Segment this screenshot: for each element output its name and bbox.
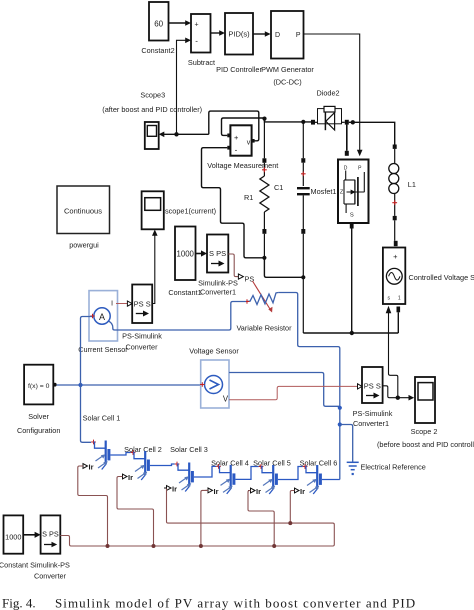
constant block Constant2 (value 60) [141,2,174,55]
wire Solar Cell 5 to Solar Cell 6 [278,467,303,480]
svg-text:+: + [195,22,199,29]
wire voltage measurement output to Scope3 [159,132,209,138]
scope block Scope 2 [377,377,474,449]
svg-text:Voltage Sensor: Voltage Sensor [189,347,239,356]
svg-text:Converter1: Converter1 [353,419,389,428]
wire P output of PWM Generator to Mosfet1 gate [304,34,363,156]
svg-text:powergui: powergui [69,241,99,250]
wire feedback from node A to Subtract minus input [177,38,192,135]
wire ground branch [340,425,353,462]
node junction top bus at C1 [301,120,305,124]
svg-text:S PS: S PS [209,249,226,258]
wire Solar Cell 1 to Solar Cell 2 [110,453,130,456]
wire Ir feed Solar Cell 2 [117,477,154,547]
svg-text:Fig. 4.: Fig. 4. [2,596,36,610]
wire Mosfet1 source to negative rail [350,223,354,333]
svg-text:+: + [393,252,398,261]
svg-text:f(x) = 0: f(x) = 0 [28,383,50,390]
svg-text:PS S: PS S [134,300,151,309]
wire Subtract to PID Controller [211,30,226,36]
svg-text:I: I [111,299,113,308]
wire PV bus down to Solar Cell 1 plus [81,385,92,442]
block Voltage Measurement [207,125,278,170]
wire CVS negative terminal down to rail [397,307,401,334]
wire switch node down to Mosfet1 drain [345,125,349,156]
diode D2 Diode2 [311,89,349,131]
variable resistor VR1 body [236,293,292,333]
svg-text:(after boost and PID controlle: (after boost and PID controller) [102,105,202,114]
svg-text:R1: R1 [244,193,253,202]
solar cell block Solar Cell 4 [206,459,249,496]
svg-text:Scope3: Scope3 [140,90,165,99]
svg-text:PS S: PS S [364,382,381,391]
svg-text:P: P [296,32,301,39]
inductor L1 [389,145,416,241]
port arrow PS-Simulink Converter input [127,301,132,306]
constant block Constant (value 1000, bottom left) [0,515,28,569]
svg-text:1000: 1000 [177,250,195,259]
svg-text:Simulink model of PV array wit: Simulink model of PV array with boost co… [55,596,416,610]
capacitor C1 [274,122,310,333]
node PV plus junction [78,383,82,387]
wire negative rail bottom of boost [303,332,398,334]
svg-text:L1: L1 [408,180,416,189]
controller block PID Controller [216,13,262,74]
svg-text:Constant: Constant [0,561,28,570]
svg-text:Solar Cell 3: Solar Cell 3 [170,445,208,454]
converter block PS-Simulink Converter1 [353,367,393,428]
wire irradiance PS bus from Simulink-PS Converter to solar cells [60,489,334,547]
svg-text:Voltage Measurement: Voltage Measurement [207,161,278,170]
wire Current Sensor I output to PS-Simulink Converter [116,303,127,305]
svg-text:C1: C1 [274,183,283,192]
svg-text:Electrical Reference: Electrical Reference [361,463,426,472]
svg-text:PWM Generator: PWM Generator [261,65,314,74]
transistor block Mosfet1 [311,160,369,224]
svg-text:Ir: Ir [300,487,305,496]
node PS bus junction cell1 [106,544,110,548]
node junction C1 branch [301,275,305,279]
svg-text:1000: 1000 [5,533,21,542]
port arrow PS-Simulink Converter1 input [358,384,363,389]
svg-text:S PS: S PS [42,530,59,539]
svg-text:Solar Cell 1: Solar Cell 1 [83,414,121,423]
solar cell block Solar Cell 2 [120,445,162,482]
wire PS-Simulink Converter output up to scope1 [152,230,158,304]
node junction scope2 wire [396,396,400,400]
svg-text:Constant2: Constant2 [141,46,174,55]
block powergui Continuous [57,186,110,250]
wire Variable Resistor right terminal to PV negative node [278,293,340,480]
svg-text:PID(s): PID(s) [228,30,250,39]
svg-text:Converter: Converter [125,343,158,352]
svg-text:Converter: Converter [34,572,67,581]
svg-text:Ir: Ir [128,473,133,482]
node junction top bus at R1 [262,117,266,121]
wire Ir feed Solar Cell 6 [290,491,294,524]
node junction R1 bottom [262,256,266,260]
svg-text:Controlled Voltage Sour: Controlled Voltage Sour [409,273,474,282]
wire PV bus up to Current Sensor left terminal [81,317,93,386]
scope block Scope3 [102,90,202,149]
svg-text:V: V [223,395,229,404]
wire R1 bottom to C1 negative branch [264,258,303,278]
solar cell block Solar Cell 1 [81,414,121,472]
svg-text:Ir: Ir [256,487,261,496]
svg-text:Converter1: Converter1 [200,288,236,297]
wire Current Sensor electrical out to Variable Resistor left [109,302,246,331]
svg-text:Subtract: Subtract [188,58,215,67]
svg-text:-: - [235,146,238,155]
solar cell block Solar Cell 5 [248,459,291,497]
wire Simulink-PS Converter1 to Variable Resistor PS input [228,254,238,277]
wire PV positive bus [57,384,201,386]
wire Voltage Sensor electrical return to ground node [229,373,340,407]
svg-text:1: 1 [398,296,401,302]
svg-text:Configuration: Configuration [17,426,60,435]
wire Voltage Measurement plus input to boost output bus [222,118,312,135]
wire Constant2 to Subtract [169,20,192,26]
svg-text:Variable Resistor: Variable Resistor [236,324,292,333]
wire Constant1 to Simulink-PS Converter1 [196,250,208,256]
svg-text:+: + [234,133,239,142]
constant block Constant1 (value 1000) [168,227,201,298]
node blue junction ground branch [338,422,342,426]
svg-text:Ir: Ir [172,485,177,494]
svg-text:Simulink-PS: Simulink-PS [30,561,70,570]
svg-text:S: S [350,213,354,219]
sensor block Voltage Sensor [189,347,239,409]
node B boost switch node junction [351,120,355,124]
wire switch node to L1 top [349,122,395,144]
node PS bus junction cell5 [272,544,276,548]
svg-text:60: 60 [154,20,163,29]
variable resistor VR1 arrow [253,281,273,313]
svg-text:Diode2: Diode2 [316,89,339,98]
wire Solar Cell 2 to Solar Cell 3 [150,464,175,466]
wire Solar Cell 6 to PV negative riser [322,479,340,481]
wire Solar Cell 3 to Solar Cell 4 [194,466,216,477]
wire Voltage Measurement minus input staircase to negative rail [202,148,265,258]
svg-text:PID Controller: PID Controller [216,65,262,74]
sensor block Current Sensor [78,291,128,354]
svg-text:v: v [247,140,251,147]
svg-text:Scope 2: Scope 2 [411,427,438,436]
svg-text:-: - [195,37,198,46]
svg-text:Simulink-PS: Simulink-PS [198,279,238,288]
svg-text:(DC-DC): (DC-DC) [273,78,301,87]
wire Constant to Simulink-PS Converter [23,532,40,538]
converter block PS-Simulink Converter [122,285,162,352]
wire Voltage Sensor V output to PS-Simulink Converter1 [229,386,358,399]
wire junction up to CVS signal input [386,306,398,398]
svg-text:Mosfet1: Mosfet1 [311,187,337,196]
node PS bus junction cell6 [288,521,292,525]
svg-text:PS-Simulink: PS-Simulink [353,409,393,418]
wire Solar Cell 4 to Solar Cell 5 [235,467,258,480]
wire PID Controller to PWM Generator [253,31,271,37]
svg-text:A: A [99,312,105,322]
block Solver Configuration [17,365,60,435]
port arrow PS input of Variable Resistor [238,274,243,279]
svg-text:Constant1: Constant1 [168,288,201,297]
wire Ir feed Solar Cell 4 [201,490,208,546]
node junction negative rail at mosfet source [350,331,354,335]
solar cell block Solar Cell 3 [164,445,208,494]
converter block Simulink-PS Converter1 [198,235,238,297]
wire v-output loop of Voltage Measurement [209,111,259,141]
node PS bus junction cell2 [152,544,156,548]
ground Electrical Reference [347,462,426,475]
solar cell block Solar Cell 6 [292,459,337,497]
svg-text:Ir: Ir [89,463,94,472]
svg-text:D: D [275,32,280,39]
node blue junction VS return [338,406,342,410]
wire Ir feed Solar Cell 5 [248,491,274,547]
resistor R1 [244,119,269,258]
wire PS-Simulink Converter1 output to Scope 2 [383,386,415,401]
node PS bus junction cell4 [199,544,203,548]
wire Ir feed Solar Cell 1 [78,466,108,546]
source block Controlled Voltage Source [383,241,474,304]
svg-text:Ir: Ir [214,487,219,496]
svg-text:scope1(current): scope1(current) [165,207,216,216]
converter block Simulink-PS Converter (bottom left) [30,515,70,580]
sum block Subtract U-sub [188,14,215,67]
node A junction on scope3 wire [174,132,178,136]
block PWM Generator (DC-DC) [261,11,314,87]
svg-text:(before boost and PID controll: (before boost and PID controller) [377,440,474,449]
svg-text:Solver: Solver [28,412,49,421]
svg-text:PS-Simulink: PS-Simulink [122,332,162,341]
svg-text:Current Sensor: Current Sensor [78,345,128,354]
scope block scope1(current) [142,191,217,229]
svg-text:Continuous: Continuous [64,207,102,216]
